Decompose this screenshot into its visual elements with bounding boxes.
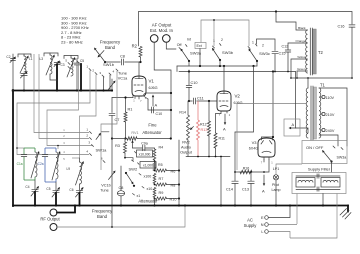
capacitor C3 trimmer — [54, 61, 65, 68]
svg-text:Supply Filter: Supply Filter — [308, 167, 331, 172]
node ladder R4 R5 — [154, 160, 156, 163]
label RV2 Audio Output — [180, 140, 193, 155]
svg-text:C5: C5 — [46, 187, 50, 191]
tap T1 110V — [321, 95, 335, 100]
wire band riser 3 — [80, 75, 97, 159]
svg-text:R7: R7 — [159, 177, 164, 181]
wire SW3a pivot down — [188, 61, 190, 66]
svg-text:L1: L1 — [29, 57, 33, 61]
svg-text:Ext. Mod. In: Ext. Mod. In — [150, 28, 174, 33]
svg-text:23 - 80 MHz: 23 - 80 MHz — [61, 40, 83, 45]
label T2 black lead — [298, 26, 306, 30]
svg-text:SW3b: SW3b — [222, 50, 234, 55]
svg-text:R13: R13 — [201, 128, 208, 132]
capacitor filter bottom — [317, 187, 319, 191]
svg-text:Fine: Fine — [148, 123, 157, 128]
capacitor C9 — [151, 107, 162, 116]
wire C3 to bus — [56, 65, 58, 92]
label T2 orange lead — [295, 39, 305, 43]
svg-text:Ext: Ext — [197, 44, 202, 48]
svg-text:R6: R6 — [171, 170, 176, 174]
jack RF output 1 — [50, 209, 57, 216]
capacitor C4 trimmer lower1 — [25, 180, 39, 207]
coil L9 — [66, 158, 83, 185]
wire V2 rail to ground — [220, 156, 222, 207]
node V2 grid — [188, 100, 190, 102]
switch SW3b — [212, 38, 234, 61]
resistor R3 — [115, 139, 133, 162]
svg-text:RV1: RV1 — [131, 131, 138, 135]
wire T2 black lead — [276, 12, 308, 31]
svg-text:x100: x100 — [144, 175, 152, 179]
svg-text:SW1b: SW1b — [103, 62, 115, 67]
coil L1 — [18, 54, 33, 73]
wire band riser 6 — [102, 77, 104, 92]
wire switch to filter — [331, 162, 333, 173]
capacitor C1a padding — [17, 148, 27, 180]
resistor R13 — [197, 101, 208, 157]
variable capacitor VC1b — [100, 139, 115, 228]
wire ladder bottom to ground — [153, 199, 155, 207]
svg-text:VC1b: VC1b — [101, 184, 111, 188]
svg-text:L9: L9 — [66, 167, 70, 171]
svg-text:6X4G: 6X4G — [249, 147, 258, 151]
resistor R11 — [214, 114, 225, 157]
svg-text:Attenuator: Attenuator — [142, 130, 162, 135]
wire HT rail riser1 — [235, 66, 254, 132]
switch SW2 contact x1 — [133, 194, 141, 199]
svg-text:SW3a: SW3a — [337, 156, 347, 160]
svg-text:R10: R10 — [170, 198, 177, 202]
svg-text:L5: L5 — [57, 61, 61, 65]
switch SW2 range box x10000 — [135, 150, 153, 157]
svg-text:Frequency: Frequency — [92, 209, 113, 214]
svg-text:R11: R11 — [219, 137, 225, 141]
terminal E — [261, 204, 291, 220]
svg-text:T2: T2 — [318, 50, 324, 55]
svg-text:VC1a: VC1a — [118, 77, 128, 81]
svg-text:C10: C10 — [191, 81, 198, 85]
tube V3 6X4G — [249, 136, 275, 165]
wire top ground bus — [13, 90, 112, 92]
svg-text:240V: 240V — [326, 129, 335, 133]
wire band riser 2 — [47, 63, 92, 149]
label T2 green lead — [297, 67, 306, 71]
wire V2 grid line — [189, 100, 217, 102]
wire jack2 to SW3a — [166, 42, 176, 49]
wire C9 line — [148, 109, 172, 111]
switch SW1a — [63, 128, 109, 163]
tube V2 6J6G — [217, 66, 243, 117]
svg-text:AF Output: AF Output — [152, 23, 172, 28]
wire bus y70 — [177, 66, 296, 73]
terminal N — [261, 223, 297, 227]
svg-text:L3: L3 — [39, 57, 43, 61]
svg-text:210V: 210V — [326, 113, 335, 117]
wire T1 sec top to switch — [319, 88, 347, 146]
wire L3 bottom — [50, 74, 57, 80]
jack J2 ext mod in — [163, 35, 171, 43]
svg-text:R16: R16 — [243, 167, 250, 171]
wire filter to ground bus — [322, 194, 324, 207]
svg-text:C8: C8 — [120, 55, 125, 59]
node A feed V1 — [152, 95, 158, 108]
svg-text:C2a: C2a — [38, 162, 44, 166]
svg-text:1: 1 — [252, 41, 254, 45]
switch SW2 contact x10 — [142, 187, 152, 192]
svg-text:V2: V2 — [235, 94, 241, 99]
svg-text:SW1a: SW1a — [96, 148, 108, 153]
resistor R7 — [153, 174, 163, 184]
capacitor C8 bypass — [117, 166, 124, 207]
svg-text:L: L — [261, 230, 263, 234]
switch SW3c — [248, 41, 270, 63]
label AF Output Ext. Mod. In — [150, 23, 174, 34]
wire filter internal top — [296, 175, 340, 177]
svg-text:Pilot: Pilot — [272, 183, 279, 187]
svg-text:Output: Output — [180, 150, 193, 155]
wire T2 orange lead — [288, 43, 308, 50]
potentiometer RV1 — [112, 137, 172, 141]
svg-text:C14: C14 — [226, 188, 233, 192]
wire T2 green lead — [296, 71, 307, 79]
svg-text:C6: C6 — [69, 188, 73, 192]
wire RF jack2 line — [57, 204, 186, 228]
wire RV1 wiper to C9a — [131, 140, 142, 148]
coil L3 — [39, 53, 58, 75]
transformer T1 — [306, 83, 325, 141]
resistor R4 — [153, 146, 163, 161]
wire filter internal bottom — [296, 189, 340, 191]
wire V1 cathode rail — [112, 96, 133, 98]
svg-text:R2: R2 — [132, 44, 138, 49]
capacitor C2 antenna trimmer — [6, 54, 16, 91]
wire SW1b wiper to V1 grid — [105, 61, 141, 63]
label AC Supply — [244, 218, 258, 229]
capacitor C9a — [141, 142, 154, 151]
svg-text:x1,000: x1,000 — [143, 164, 153, 168]
svg-text:6J6G: 6J6G — [234, 101, 243, 105]
switch SW2 contact x100 — [139, 174, 151, 179]
capacitor C12 — [282, 45, 291, 72]
wire lamp bottom — [275, 180, 277, 207]
filter box — [292, 173, 346, 194]
wire modulation link — [201, 19, 249, 46]
svg-text:Tune: Tune — [118, 71, 128, 76]
svg-text:V3: V3 — [252, 140, 258, 145]
resistor R2 — [132, 44, 142, 63]
wire band riser 7 — [109, 75, 111, 91]
label Fine Attenuator — [131, 123, 162, 136]
coil L5 — [57, 56, 78, 78]
label Attenuator — [138, 198, 158, 203]
resistor R1 — [124, 96, 132, 139]
capacitor C16 — [338, 25, 355, 79]
node ladder R5 R6 — [154, 170, 156, 172]
wire power section boundary — [237, 104, 306, 171]
svg-text:Off: Off — [177, 43, 182, 47]
capacitor C5 trimmer — [74, 59, 84, 92]
wire filter leg N — [296, 194, 298, 225]
resistor R8 — [154, 183, 180, 188]
node A supply output — [262, 171, 265, 193]
svg-text:R3: R3 — [115, 144, 120, 148]
svg-text:C16: C16 — [338, 25, 345, 29]
capacitor C7 — [109, 98, 119, 140]
terminal L — [261, 230, 290, 238]
svg-text:T1: T1 — [320, 83, 326, 88]
svg-text:R14: R14 — [179, 111, 186, 115]
inductor FL2 — [321, 178, 340, 188]
wire V3 cathode to filter — [235, 160, 269, 173]
wire band riser 4 — [34, 54, 89, 133]
tube V1 6J6G — [132, 62, 158, 103]
svg-text:C9a: C9a — [141, 142, 148, 146]
switch SW2 — [125, 167, 138, 187]
svg-text:V1: V1 — [149, 79, 155, 84]
node top rail junction — [275, 10, 277, 12]
transformer T2 — [306, 28, 324, 75]
svg-text:SW3c: SW3c — [259, 51, 270, 56]
svg-text:SW2: SW2 — [129, 167, 138, 172]
arrow frequency band to SW1b — [98, 51, 105, 58]
resistor R16 — [240, 167, 252, 174]
capacitor C1 trimmer — [20, 71, 27, 92]
frequency band range list — [61, 16, 89, 45]
svg-text:Supply: Supply — [244, 223, 258, 228]
svg-text:Int: Int — [187, 38, 191, 42]
svg-text:C12: C12 — [282, 45, 289, 49]
capacitor filter top — [317, 174, 319, 178]
wire SW3b pivot down — [219, 60, 221, 66]
label RF Output — [40, 217, 60, 222]
svg-text:R1: R1 — [128, 108, 133, 112]
svg-text:R8: R8 — [171, 184, 176, 188]
wire T1 primary top — [307, 78, 309, 88]
wire SW3c contact2 to C15 — [257, 39, 276, 51]
svg-text:110V: 110V — [326, 96, 335, 100]
wire T1 primary bottom to A — [296, 72, 309, 134]
label Supply Filter — [308, 167, 331, 172]
wire V2 cell bottom rail — [186, 156, 230, 158]
wire T1 sec bottom to switch — [319, 135, 338, 146]
capacitor C2a padding — [38, 148, 48, 182]
switch SW2 range box x1000 — [138, 162, 157, 169]
svg-text:A: A — [262, 189, 265, 194]
wire band riser 1 — [16, 71, 90, 155]
wire V1 plate to rail — [146, 92, 173, 94]
svg-text:C5: C5 — [80, 59, 84, 63]
svg-text:C15: C15 — [279, 52, 286, 56]
wire secondary bottom rail — [291, 77, 353, 79]
wire filter leg L — [290, 194, 337, 239]
svg-text:2: 2 — [221, 38, 223, 42]
svg-text:C3: C3 — [61, 63, 65, 67]
wire band riser 5 — [39, 54, 89, 139]
wire bus y66 — [177, 65, 257, 67]
wire jack1 to rail — [154, 42, 171, 138]
capacitor C6 trimmer lower3 — [69, 184, 83, 207]
label T2 yellow lead — [297, 55, 306, 59]
svg-text:Attenuator: Attenuator — [138, 198, 158, 203]
svg-text:Orange: Orange — [295, 39, 305, 43]
switch SW4 on-off — [302, 141, 347, 164]
capacitor C5a trimmer lower2 — [46, 182, 60, 207]
svg-text:Frequency: Frequency — [100, 40, 121, 45]
wire Ext box down — [199, 49, 201, 67]
svg-text:2: 2 — [262, 44, 264, 48]
svg-text:A: A — [223, 127, 226, 132]
svg-text:C13: C13 — [242, 188, 249, 192]
inductor FL1 — [296, 178, 315, 188]
wire attenuator output rail — [178, 140, 180, 207]
coil L7 — [24, 148, 40, 180]
svg-text:C11: C11 — [197, 97, 204, 101]
resistor R10 — [154, 197, 180, 202]
label Frequency Band bottom — [92, 209, 113, 220]
svg-text:R5: R5 — [158, 163, 163, 167]
capacitor C13 — [242, 171, 254, 206]
wire top supply rail — [139, 12, 353, 47]
wire lamp top — [276, 164, 302, 175]
svg-text:C4: C4 — [25, 185, 29, 189]
svg-text:x10,000: x10,000 — [139, 152, 151, 156]
svg-text:ON / OFF: ON / OFF — [306, 145, 324, 150]
wire T2 yellow lead — [290, 59, 307, 79]
capacitor C8 — [120, 55, 125, 66]
capacitor C11 — [193, 97, 203, 105]
svg-text:C1a: C1a — [17, 162, 23, 166]
node V1 grid junction — [139, 61, 141, 63]
tap T1 240V — [321, 128, 335, 133]
capacitor C10 — [186, 70, 197, 101]
svg-text:R4: R4 — [159, 146, 164, 150]
resistor R6 — [156, 169, 181, 174]
capacitor C15 — [272, 52, 285, 72]
wire contact riser bold — [80, 64, 82, 92]
svg-text:R12: R12 — [200, 123, 207, 127]
svg-text:AC: AC — [247, 218, 253, 223]
tap T1 210V — [321, 112, 335, 117]
svg-text:Yellow: Yellow — [297, 55, 306, 59]
wire HT rail riser2 — [272, 72, 274, 138]
svg-text:Green: Green — [297, 67, 306, 71]
wire main ground bus — [13, 205, 348, 207]
svg-text:Black: Black — [298, 26, 306, 30]
variable capacitor VC1a — [108, 71, 128, 92]
svg-text:6J6G: 6J6G — [149, 86, 158, 90]
wire left ground riser — [12, 90, 14, 206]
coil L8 — [45, 148, 61, 182]
switch SW3a — [177, 38, 206, 63]
ground symbol — [340, 206, 351, 220]
jack J1 AF output — [150, 35, 158, 43]
label Frequency Band top — [100, 40, 121, 51]
svg-text:Band: Band — [105, 45, 116, 50]
svg-text:x10: x10 — [147, 187, 153, 191]
switch SW1b — [65, 48, 118, 78]
wire SW3c pivot down — [256, 61, 258, 66]
resistor R9 — [153, 188, 163, 198]
node A feed V2 — [223, 114, 226, 132]
wire RF jack1 to ground — [57, 204, 76, 212]
svg-text:R9: R9 — [159, 191, 164, 195]
resistor R14 — [179, 101, 193, 157]
node A mains side — [284, 119, 300, 136]
svg-text:Tune: Tune — [100, 188, 109, 192]
lamp LP1 — [272, 167, 281, 192]
svg-text:Band: Band — [97, 214, 108, 219]
svg-text:C2: C2 — [6, 55, 10, 59]
svg-text:A: A — [155, 103, 158, 108]
capacitor C14 — [226, 132, 238, 207]
svg-text:C10: C10 — [156, 112, 163, 116]
resistor R12 — [200, 101, 211, 157]
wire V1 pin to C9 wire — [144, 96, 149, 110]
resistor R5 — [153, 163, 162, 171]
svg-text:N: N — [261, 223, 264, 227]
svg-text:RF Output: RF Output — [40, 217, 60, 222]
jack RF output 2 — [50, 224, 57, 231]
wire band riser 8 — [101, 71, 117, 170]
